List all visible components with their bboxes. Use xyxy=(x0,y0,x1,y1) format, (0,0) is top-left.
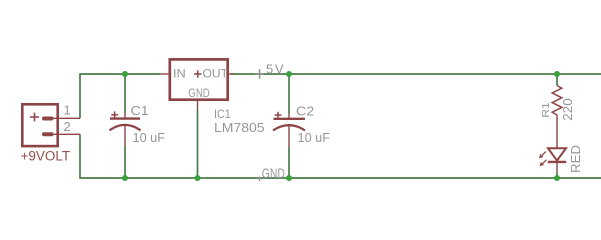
wire: LED bottom stub xyxy=(556,174,558,179)
svg-text:5V: 5V xyxy=(266,62,284,77)
wire: R1 top stub xyxy=(556,74,558,86)
connector X1 +9VOLT body xyxy=(22,104,57,146)
wire: IC1 GND pin down to bottom rail xyxy=(197,110,199,178)
svg-text:1: 1 xyxy=(64,103,71,118)
svg-text:OUT: OUT xyxy=(203,69,229,81)
capacitor C1 symbol xyxy=(110,111,141,146)
wire: C2 top vertical xyxy=(288,74,290,113)
svg-text:GND: GND xyxy=(188,88,210,100)
wire: top rail right of IC (OUT to right edge, +5V net) xyxy=(231,73,601,75)
wire: GND net, pin2 down to bottom rail to right edge xyxy=(80,134,601,178)
junction C2 top (+5V tap) xyxy=(286,71,292,77)
junction LED bottom xyxy=(554,175,560,181)
svg-text:10 uF: 10 uF xyxy=(133,130,166,145)
net label GND xyxy=(257,166,285,181)
wire R1 to LED (maroon pin) xyxy=(556,115,558,148)
LED emission arrow 2 xyxy=(540,160,547,167)
wire: C1 bottom vertical xyxy=(124,146,126,178)
svg-text:+9VOLT: +9VOLT xyxy=(21,149,71,164)
capacitor C2 symbol xyxy=(273,112,305,147)
svg-text:220: 220 xyxy=(561,98,575,121)
wire: C2 bottom vertical xyxy=(288,147,290,178)
IC1 GND pin stub xyxy=(197,101,199,110)
IC1 OUT pin stub xyxy=(229,73,233,75)
wire: +9V net, pin1 up to top rail left segment xyxy=(80,74,161,118)
svg-text:LM7805: LM7805 xyxy=(214,120,265,135)
svg-text:GND: GND xyxy=(262,166,285,181)
junction C1 top xyxy=(122,71,128,77)
connector pin 1 xyxy=(42,117,80,119)
resistor R1 zigzag xyxy=(552,86,562,116)
junction IC1 GND bottom xyxy=(195,175,201,181)
junction C2 bottom xyxy=(286,175,292,181)
LED emission arrow 1 xyxy=(539,152,546,159)
junction C1 bottom xyxy=(122,175,128,181)
svg-text:C2: C2 xyxy=(296,104,314,119)
svg-text:R1: R1 xyxy=(540,102,552,118)
junction R1 top xyxy=(554,71,560,77)
plus mark before OUT xyxy=(194,70,202,77)
IC1 IN pin stub xyxy=(161,73,169,75)
LED1 diode symbol xyxy=(548,148,566,173)
op-amp/regulator IC1 LM7805 body xyxy=(170,59,228,99)
svg-text:RED: RED xyxy=(568,145,583,173)
wire: C1 top vertical xyxy=(124,74,126,113)
svg-text:C1: C1 xyxy=(131,103,149,118)
net label +5V xyxy=(255,62,284,79)
svg-text:10 uF: 10 uF xyxy=(298,130,331,145)
svg-text:2: 2 xyxy=(64,119,71,134)
svg-text:IN: IN xyxy=(173,69,186,81)
connector pin 2 xyxy=(42,133,80,135)
